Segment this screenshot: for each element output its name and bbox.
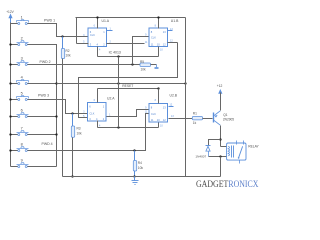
U2.A D pin label [83, 115, 85, 118]
wire left vertical to U1.A D [76, 18, 78, 44]
junction PWD3/R3 [71, 112, 73, 114]
junction reset bus row6 [55, 115, 57, 117]
D flip-flop U2.B (IC 4013) [149, 94, 178, 123]
svg-text:CLK: CLK [90, 34, 95, 37]
label PWD 3 [38, 93, 49, 97]
wire R1 to Q1 base [203, 118, 213, 120]
label PWD 4 [42, 142, 53, 146]
svg-text:1N4007: 1N4007 [195, 155, 206, 159]
svg-text:5: 5 [21, 92, 23, 96]
svg-text:U2.A: U2.A [107, 96, 115, 100]
svg-text:R3: R3 [77, 127, 81, 131]
power +12V supply arrow [6, 10, 14, 22]
wire PWD3: button5 jog to U2.A CLK [28, 100, 88, 114]
svg-text:R4: R4 [138, 161, 142, 165]
junction RESET/U1 drop [117, 82, 119, 84]
svg-text:IC 4013: IC 4013 [109, 50, 121, 54]
push button switch 5 [11, 92, 29, 101]
label 1N4007 [195, 155, 206, 159]
wire RESET drop to U2 [118, 84, 120, 128]
svg-text:CLK: CLK [151, 113, 156, 116]
wire button4 to reset bus (RESET net) [28, 83, 57, 85]
wire U2.B Q to R1 [169, 115, 193, 118]
svg-text:11: 11 [145, 41, 148, 44]
junction U1.A S [96, 16, 98, 18]
svg-text:CLK: CLK [90, 113, 95, 116]
svg-text:2: 2 [21, 37, 23, 41]
push button switch 1 [11, 16, 29, 25]
svg-text:1: 1 [109, 113, 111, 116]
svg-text:9: 9 [21, 159, 23, 163]
junction coil return / ground riser [219, 155, 221, 157]
wire PWD2: button3 to R5 [28, 64, 141, 66]
wire U2 set rail [98, 88, 159, 90]
U2.A CLK pin label [83, 110, 85, 113]
junction PWD4/R4 [133, 149, 135, 151]
U2.B top pin [155, 89, 159, 104]
junction bus row 2 [9, 43, 11, 45]
wire button9 to reset bus [28, 166, 57, 168]
push button switch 2 [11, 37, 29, 46]
junction bus row 3 [9, 63, 11, 65]
wire U1 reset drop to RESET net [118, 57, 120, 84]
U1.A top pin to ground rail [94, 18, 98, 29]
D flip-flop U2.A (IC 4013) [88, 96, 116, 121]
wire U1.B Qbar route to U2.A D [79, 43, 178, 118]
relay RL1 box and contacts [227, 141, 246, 164]
label PWD 2 [40, 60, 51, 64]
U1.B Qbar pin 12 wire [168, 40, 178, 43]
wire coil return to ground rail [220, 157, 222, 177]
U2.A top pin [94, 89, 98, 103]
svg-text:6: 6 [94, 99, 96, 102]
svg-text:1k: 1k [193, 121, 197, 125]
svg-text:10k: 10k [141, 68, 147, 72]
label RELAY [248, 144, 259, 148]
U1.B Q pin 13 stub [168, 28, 174, 31]
svg-text:4: 4 [99, 49, 101, 52]
junction PWD2/U1.B D drop [131, 63, 133, 65]
wire U2 reset bottom [98, 127, 159, 129]
svg-text:10k: 10k [77, 132, 83, 136]
U1.A bottom pin [98, 47, 102, 57]
junction reset bus row4 [55, 82, 57, 84]
push button switch 3 [11, 57, 29, 66]
junction bus row 7 [9, 133, 11, 135]
wire right ground vertical [185, 18, 187, 177]
svg-text:PWD 3: PWD 3 [38, 93, 49, 97]
push button switch 4 [11, 76, 29, 85]
wire Q1 collector down [220, 126, 222, 147]
U1.A Q pin 1 stub [107, 28, 113, 31]
push button switch 9 [11, 159, 29, 168]
junction bus row 8 [9, 149, 11, 151]
U2.A bottom pin [98, 121, 102, 128]
junction RESET end at ground vertical [184, 82, 186, 84]
wire U1 reset bottom [98, 56, 159, 58]
wire PWD4: button8 to U2.B CLK riser [28, 114, 149, 151]
svg-text:10k: 10k [138, 166, 144, 170]
resistor R3 10k pulldown PWD3 [71, 114, 82, 177]
label RESET [122, 84, 133, 88]
transistor Q1 2N2905 PNP [213, 111, 234, 125]
svg-text:GADGETRONICX: GADGETRONICX [196, 179, 259, 189]
U2.B Qbar pin 12 stub [169, 104, 174, 107]
U1.A D pin 5 wire from left vertical [77, 40, 89, 43]
resistor R4 10k pulldown PWD4 [133, 151, 143, 177]
junction PWD1/R2 [61, 35, 63, 37]
wire button6 to reset bus [28, 116, 57, 118]
svg-text:7: 7 [21, 127, 23, 131]
svg-text:2N2905: 2N2905 [223, 118, 234, 122]
svg-text:3: 3 [21, 57, 23, 61]
junction R4 at ground rail [133, 175, 135, 177]
U2.B CLK pin label [145, 111, 148, 114]
wire reset bus from button2 [28, 45, 57, 167]
label IC 4013 [109, 50, 121, 54]
svg-text:+12: +12 [217, 84, 223, 88]
svg-text:5: 5 [83, 40, 85, 43]
svg-text:RELAY: RELAY [248, 144, 259, 148]
svg-text:13: 13 [170, 28, 173, 31]
svg-text:8: 8 [155, 99, 157, 102]
junction bus row 5 [9, 98, 11, 100]
junction collector/diode branch [219, 138, 221, 140]
junction reset bus row7 [55, 133, 57, 135]
resistor R2 10k pulldown PWD1 [61, 37, 71, 177]
wire collector to relay coil+ [221, 146, 227, 148]
wire diode bottom to relay coil return [209, 156, 227, 158]
svg-text:10k: 10k [66, 54, 72, 58]
U1.B D pin 9 wire from PWD2 riser [133, 34, 149, 65]
svg-text:8: 8 [21, 143, 23, 147]
junction bus row 6 [9, 115, 11, 117]
wire left +12V bus [10, 23, 12, 167]
junction U1.B S [157, 16, 159, 18]
svg-text:PWD 1: PWD 1 [44, 19, 55, 23]
wire button7 to reset bus [28, 134, 57, 136]
U2.B bottom pin [159, 123, 164, 128]
wire branch to diode [209, 140, 221, 146]
ground symbol main [132, 177, 139, 185]
D flip-flop U1.B (IC 4013) [149, 19, 179, 46]
svg-text:RESET: RESET [122, 84, 133, 88]
junction U2 reset [117, 126, 119, 128]
U1.B top pin to ground rail [155, 18, 159, 29]
svg-text:4: 4 [21, 76, 23, 80]
wire U1 set rail (top) [76, 17, 186, 19]
svg-text:6: 6 [94, 25, 96, 28]
D flip-flop U1.A (IC 4013) [88, 19, 110, 46]
push button switch 7 [11, 127, 29, 136]
U1.B CLK pin 11 label [145, 41, 148, 44]
svg-text:U1.A: U1.A [102, 19, 110, 23]
svg-text:8: 8 [155, 25, 157, 28]
power +12 arrow at Q1 emitter [217, 84, 223, 111]
junction R3 at ground rail [71, 175, 73, 177]
svg-text:6: 6 [21, 109, 23, 113]
wire RESET net across [57, 83, 186, 85]
resistor R5 10k pulldown PWD2 [140, 60, 157, 72]
svg-text:CLK: CLK [151, 37, 156, 40]
svg-text:PWD 4: PWD 4 [42, 142, 53, 146]
svg-text:R2: R2 [66, 49, 70, 53]
ground for R5 [155, 65, 159, 71]
push button switch 6 [11, 109, 29, 118]
svg-text:R5: R5 [140, 60, 144, 64]
U1.B bottom pin [159, 47, 164, 57]
push button switch 8 [11, 143, 29, 152]
watermark GADGETRONICX [196, 179, 259, 189]
junction bus row 4 [9, 82, 11, 84]
svg-text:U2.B: U2.B [170, 94, 178, 98]
U2.A Q wire to U2.B D [107, 110, 149, 117]
U2.B D pin label [145, 107, 147, 110]
svg-text:R1: R1 [193, 112, 197, 116]
junction U2.B S top [157, 87, 159, 89]
svg-text:10: 10 [160, 49, 163, 52]
junction U1 reset drop [117, 55, 119, 57]
svg-text:10: 10 [160, 125, 163, 128]
svg-text:1: 1 [21, 16, 23, 20]
diode D1 1N4007 flyback [206, 146, 211, 157]
wire PWD1: button1 to U1.A CLK [28, 24, 89, 37]
svg-text:13: 13 [171, 115, 174, 118]
svg-text:PWD 2: PWD 2 [40, 60, 51, 64]
wire ground rail bottom [63, 176, 221, 178]
resistor R1 1k base resistor [192, 112, 202, 125]
svg-text:3: 3 [83, 110, 85, 113]
svg-text:Q1: Q1 [223, 113, 227, 117]
U1.A Qbar pin 2 wire to U1.B CLK [107, 41, 145, 44]
svg-text:U1.B: U1.B [171, 19, 179, 23]
svg-text:+12V: +12V [6, 10, 14, 14]
U1.A CLK pin 3 label [83, 34, 85, 37]
label PWD 1 [44, 19, 55, 23]
